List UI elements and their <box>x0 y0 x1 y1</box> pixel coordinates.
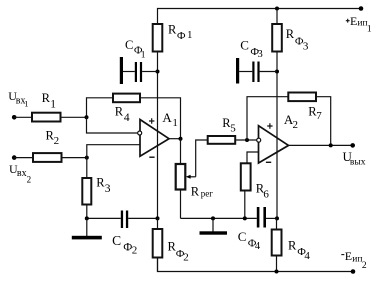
resistor R7 <box>288 93 316 102</box>
svg-text:4: 4 <box>124 112 130 124</box>
wire +E top rail <box>158 9 362 25</box>
label A1 plus <box>149 118 154 123</box>
svg-text:2: 2 <box>54 135 60 147</box>
wire V+ supply line through A2 <box>276 52 278 219</box>
wire to A1 inverting input <box>87 117 138 133</box>
label Uвх2 <box>9 162 31 184</box>
label RФ2 <box>168 240 189 264</box>
node R1/R4 junction <box>85 115 89 119</box>
wire -E bottom rail <box>158 258 354 272</box>
node R2/R3 junction <box>85 156 89 160</box>
label RФ4 <box>288 238 310 262</box>
node supply/CФ2 junction <box>156 216 160 220</box>
label A1 <box>162 110 178 129</box>
svg-text:3: 3 <box>303 40 309 52</box>
ground left <box>86 218 88 236</box>
label CФ4 <box>238 229 261 252</box>
node CФ3 junction <box>275 70 279 74</box>
label CФ3 <box>240 38 263 61</box>
wire R7 feedback left <box>247 97 288 140</box>
label R1 <box>42 91 57 110</box>
node bottom rail junction <box>275 270 279 274</box>
svg-text:R: R <box>286 27 295 41</box>
svg-text:7: 7 <box>316 110 322 122</box>
capacitor CФ1 <box>120 57 158 84</box>
wire V+ supply line through A1 <box>157 52 159 219</box>
svg-text:R: R <box>168 23 177 37</box>
svg-text:1: 1 <box>187 29 193 41</box>
node R7 output junction <box>329 143 333 147</box>
label +Eип1 <box>346 19 350 23</box>
svg-text:2: 2 <box>293 119 299 131</box>
svg-text:рег: рег <box>201 189 213 199</box>
op-amp A2 <box>259 126 289 163</box>
svg-text:R: R <box>115 105 124 119</box>
resistor R1 <box>32 113 61 122</box>
wire R2 to node <box>62 157 87 159</box>
label A1 minus <box>149 156 154 158</box>
label CФ2 <box>112 233 137 257</box>
svg-text:C: C <box>112 233 121 248</box>
capacitor CФ3 <box>236 58 277 84</box>
node CФ4/RФ4 junction <box>275 216 279 220</box>
svg-text:E: E <box>345 249 352 263</box>
node A1 output junction <box>179 137 183 141</box>
label -Eип2 <box>341 254 344 256</box>
resistor R2 <box>33 153 62 162</box>
svg-text:C: C <box>238 229 247 244</box>
label RФ3 <box>286 27 309 53</box>
label R7 <box>308 104 322 122</box>
wire left ground bus <box>87 217 121 219</box>
svg-text:4: 4 <box>255 241 261 252</box>
svg-text:E: E <box>350 14 357 28</box>
svg-text:2: 2 <box>132 244 138 256</box>
label R2 <box>46 128 60 147</box>
svg-text:1: 1 <box>50 98 56 110</box>
resistor RФ2 <box>157 218 159 229</box>
wire R4 left to inverting node <box>87 98 114 118</box>
svg-text:3: 3 <box>105 183 111 195</box>
resistor RФ1 <box>153 24 163 52</box>
resistor R4 <box>113 94 140 103</box>
wiper arrow of Rрег <box>190 176 196 178</box>
label A2 minus <box>266 161 271 163</box>
svg-text:Ф: Ф <box>177 30 186 42</box>
node -E terminal <box>351 269 356 274</box>
label RФ1 <box>168 23 193 42</box>
svg-text:3: 3 <box>258 49 263 60</box>
node Uвых terminal <box>350 143 355 148</box>
node right ground junction <box>211 216 215 220</box>
wire right ground bus <box>181 217 257 219</box>
label R5 <box>222 116 236 134</box>
svg-text:1: 1 <box>141 50 146 60</box>
label A2 <box>284 112 298 131</box>
node +E terminal <box>359 6 364 11</box>
svg-text:2: 2 <box>183 252 189 264</box>
label R4 <box>115 105 130 124</box>
svg-text:2: 2 <box>27 175 32 185</box>
svg-text:1: 1 <box>24 98 28 108</box>
resistor R5 <box>208 136 236 144</box>
resistor R3 <box>86 158 88 178</box>
label R6 <box>256 182 270 201</box>
node A2 inverting junction <box>245 138 249 142</box>
resistor RФ4 <box>276 218 278 229</box>
wire A2 noninverting input to R6 <box>247 152 259 163</box>
capacitor CФ4 <box>257 207 260 228</box>
svg-text:вых: вых <box>350 158 366 168</box>
potentiometer Rрег <box>180 139 182 164</box>
node Uвх2 terminal <box>12 155 17 160</box>
node CФ1 junction <box>156 70 160 74</box>
svg-text:2: 2 <box>362 261 367 271</box>
svg-text:6: 6 <box>263 188 269 200</box>
svg-text:вх: вх <box>17 168 27 179</box>
wire A2 output <box>289 144 353 146</box>
op-amp A1 <box>140 120 169 157</box>
svg-text:C: C <box>240 38 249 53</box>
label R3 <box>96 176 111 196</box>
wire R5 to A2 inverting node <box>235 139 256 141</box>
wire R1 to node <box>61 116 87 118</box>
svg-text:1: 1 <box>172 117 178 129</box>
wire R4 right to A1 output <box>140 98 181 139</box>
resistor RФ3 <box>272 24 282 52</box>
node Uвх1 terminal <box>12 115 17 120</box>
svg-text:5: 5 <box>230 122 236 134</box>
svg-text:1: 1 <box>367 25 372 35</box>
label A2 plus <box>267 123 272 128</box>
svg-text:C: C <box>125 38 133 52</box>
node R6 bottom junction <box>243 216 247 220</box>
svg-text:R: R <box>191 184 200 198</box>
ground right <box>212 218 214 231</box>
wire Uвх2 to R2 <box>14 157 33 159</box>
pin A2 inverting bubble <box>257 138 261 142</box>
wire to A1 noninverting input <box>87 145 140 158</box>
svg-text:A: A <box>162 110 172 125</box>
wire R7 right to output <box>316 97 331 146</box>
capacitor CФ2 <box>121 211 123 229</box>
svg-text:R: R <box>288 238 297 252</box>
svg-text:R: R <box>42 91 51 105</box>
resistor R6 <box>241 163 251 190</box>
node left ground junction <box>85 216 89 220</box>
wire Uвх1 to R1 <box>14 116 32 118</box>
node top rail junction <box>275 7 279 11</box>
pin A1 inverting bubble <box>138 131 142 135</box>
label Uвх1 <box>8 89 28 108</box>
label Uвых <box>343 149 366 168</box>
wire wiper to R5 <box>196 140 208 177</box>
label CФ1 <box>125 38 146 61</box>
wire A1 output <box>169 138 181 140</box>
label Rрег <box>191 184 213 198</box>
svg-text:4: 4 <box>304 250 310 262</box>
